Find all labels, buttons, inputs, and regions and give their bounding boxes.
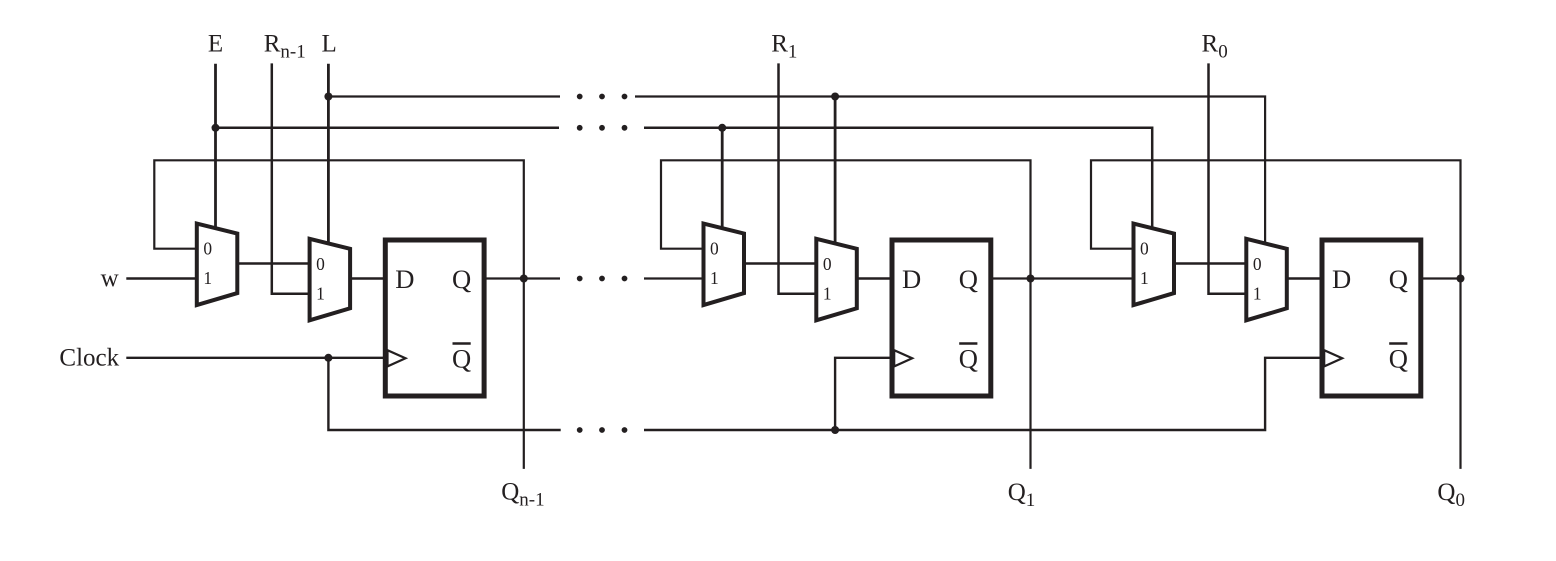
svg-text:D: D — [395, 264, 414, 294]
svg-text:0: 0 — [1253, 254, 1262, 274]
svg-text:0: 0 — [1140, 239, 1149, 259]
svg-text:Clock: Clock — [59, 345, 119, 372]
svg-text:0: 0 — [203, 239, 212, 259]
svg-text:1: 1 — [1253, 283, 1262, 303]
svg-text:Q: Q — [452, 344, 471, 374]
svg-text:w: w — [101, 265, 119, 292]
svg-text:1: 1 — [710, 268, 719, 288]
svg-text:Q: Q — [959, 344, 978, 374]
svg-text:L: L — [322, 31, 337, 58]
svg-text:0: 0 — [823, 254, 832, 274]
svg-text:1: 1 — [203, 268, 212, 288]
svg-text:1: 1 — [823, 283, 832, 303]
svg-text:Q: Q — [452, 264, 471, 294]
svg-text:1: 1 — [316, 283, 325, 303]
svg-text:Q: Q — [959, 264, 978, 294]
svg-text:Q: Q — [1389, 264, 1408, 294]
svg-text:0: 0 — [316, 254, 325, 274]
svg-text:D: D — [1332, 264, 1351, 294]
svg-text:D: D — [902, 264, 921, 294]
svg-text:Q: Q — [1389, 344, 1408, 374]
svg-text:E: E — [208, 31, 223, 58]
svg-text:1: 1 — [1140, 268, 1149, 288]
svg-text:0: 0 — [710, 239, 719, 259]
